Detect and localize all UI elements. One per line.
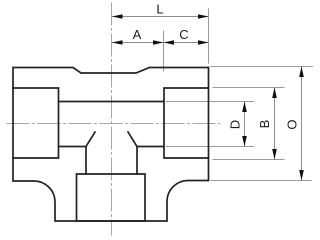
dimension C line [164, 42, 209, 44]
dimension C arrow left [164, 40, 175, 45]
extension line D bottom [167, 146, 254, 148]
dimension B arrow top [272, 88, 277, 99]
extension line O top [211, 66, 313, 68]
extension line D top [167, 101, 254, 103]
svg-text:L: L [156, 2, 163, 17]
svg-text:O: O [285, 119, 300, 129]
dimension C arrow right [198, 40, 209, 45]
dimension D line [244, 102, 246, 147]
dimension D arrow top [242, 102, 247, 113]
branch bore left wall [85, 147, 87, 175]
dimension O arrow bottom [299, 170, 304, 181]
dimension O line [301, 67, 303, 181]
svg-text:B: B [257, 120, 272, 129]
svg-text:A: A [133, 27, 142, 42]
branch chamfer left [86, 132, 95, 147]
branch socket rectangle [77, 174, 146, 221]
tee body outer profile [13, 68, 209, 222]
branch chamfer right [128, 132, 137, 147]
svg-text:C: C [179, 27, 188, 42]
extension line B bottom [213, 159, 284, 161]
run bore top line [59, 101, 165, 103]
extension line B top [213, 87, 284, 89]
dimension A arrow right [153, 40, 164, 45]
branch bore right wall [136, 147, 138, 175]
dimension L line [112, 16, 209, 18]
dimension L arrow left [112, 14, 123, 19]
centerline vertical (branch axis) [111, 3, 113, 235]
extension line for L/C at right body face [208, 9, 210, 63]
right socket bore rectangle [164, 88, 209, 158]
run bore bottom line right segment [137, 146, 164, 148]
dimension A line [112, 42, 164, 44]
extension line O bottom [211, 180, 311, 182]
dimension D arrow bottom [242, 136, 247, 147]
centerline horizontal (run axis) [7, 123, 220, 125]
dimension O arrow top [299, 67, 304, 78]
svg-text:D: D [228, 120, 243, 129]
dimension B line [274, 88, 276, 160]
dimension B arrow bottom [272, 149, 277, 160]
extension line for A/C at socket face [163, 31, 165, 71]
left socket bore rectangle [13, 88, 59, 158]
dimension L arrow right [198, 14, 209, 19]
dimension A arrow left [112, 40, 123, 45]
run bore bottom line left segment [59, 146, 87, 148]
